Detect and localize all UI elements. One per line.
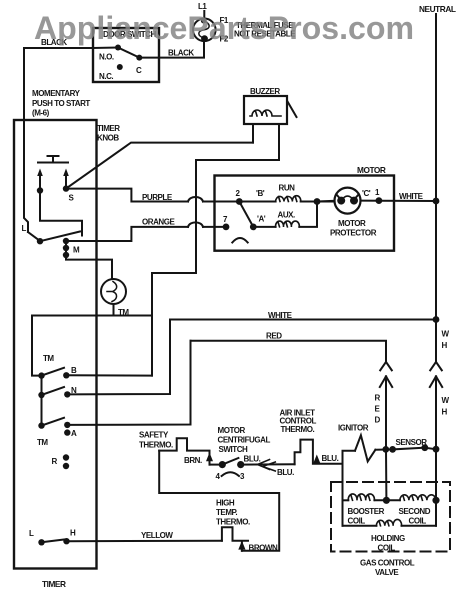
motor aux winding [276, 221, 300, 227]
wire: to centrifugal switch [210, 464, 223, 466]
junction run/aux [314, 198, 321, 205]
svg-text:BUZZER: BUZZER [250, 87, 280, 96]
svg-text:MOTOR: MOTOR [357, 165, 386, 175]
wire: run coil to junction [301, 201, 335, 203]
svg-text:N.O.: N.O. [99, 53, 114, 62]
air inlet thermostat staircase [295, 440, 343, 465]
motor A contact [250, 224, 257, 231]
svg-text:TIMER: TIMER [97, 124, 120, 133]
wire: buzzer right terminal to B riser [152, 124, 279, 376]
brn connector arrowhead [206, 453, 213, 462]
fuse terminal F2 dot [201, 35, 208, 42]
protector ticks [337, 195, 340, 199]
svg-text:COIL: COIL [348, 517, 366, 526]
svg-text:COIL: COIL [409, 517, 427, 526]
centrifugal switch contact 4 [219, 461, 226, 468]
TM winding squiggle [107, 282, 117, 302]
connector fork (white line) [430, 362, 442, 370]
svg-text:BLACK: BLACK [168, 49, 194, 58]
svg-text:IGNITOR: IGNITOR [338, 424, 369, 433]
svg-text:H: H [442, 341, 448, 350]
wire: M contact link [65, 241, 67, 255]
svg-text:R: R [52, 457, 58, 466]
svg-text:BLU.: BLU. [322, 454, 339, 463]
timer L blade [40, 232, 80, 242]
svg-text:PUSH TO START: PUSH TO START [32, 99, 90, 108]
wire: neutral vertical bus (top section) [435, 14, 437, 362]
motor terminal C [376, 197, 383, 204]
timer box [14, 120, 97, 569]
junction on neutral [433, 198, 440, 205]
centrifugal switch contact 3 [237, 461, 244, 468]
wire: TM bottom to bus [113, 304, 115, 316]
wire: junction to protector [317, 200, 335, 203]
wire: to booster coil [343, 499, 349, 501]
motor start blade 2-A [239, 202, 253, 227]
svg-text:WHITE: WHITE [399, 192, 424, 201]
svg-text:MOMENTARY: MOMENTARY [32, 89, 81, 98]
svg-text:'A': 'A' [257, 215, 266, 224]
wire: M to orange (jog) [66, 227, 188, 241]
motor box [215, 176, 395, 251]
wire: yellow from H [67, 540, 222, 543]
wire: S to purple (jog) [66, 189, 188, 202]
svg-text:TM: TM [43, 354, 54, 363]
wire: aux coil up to junction [299, 202, 317, 227]
motor terminal 7 [223, 224, 230, 231]
svg-text:MOTOR: MOTOR [338, 219, 366, 228]
wire: orange hump over harness line [188, 222, 203, 227]
motor terminal 2 [236, 198, 243, 205]
holding coil [376, 519, 401, 525]
svg-text:SECOND: SECOND [399, 507, 431, 516]
second coil [400, 495, 436, 500]
svg-text:ORANGE: ORANGE [142, 218, 176, 227]
wire: red riser to A contact [67, 341, 190, 425]
push button cap [48, 155, 59, 157]
svg-text:7: 7 [223, 215, 228, 224]
centrifugal switch blade [222, 458, 238, 465]
svg-text:CENTRIFUGAL: CENTRIFUGAL [218, 436, 271, 445]
wire: ignitor to junction [375, 448, 392, 450]
wire: purple to motor terminal 2 [203, 201, 239, 203]
connector arrow (red line) [380, 376, 392, 449]
blu connector arrowhead [313, 455, 320, 464]
wire: booster to junction [374, 499, 400, 501]
motor run winding [276, 196, 301, 202]
svg-text:AUX.: AUX. [278, 211, 296, 220]
timer R spare contacts [63, 454, 69, 460]
wire: holding coil left lead [343, 525, 377, 527]
timer H contact [63, 538, 69, 544]
wire: buzzer left terminal to knob/S line [252, 124, 254, 143]
wire: white riser to N contact [67, 320, 170, 395]
svg-text:PURPLE: PURPLE [142, 193, 173, 202]
actuation arrow left [39, 173, 41, 188]
timer B contact [63, 372, 69, 378]
door switch N.C. terminal [117, 64, 123, 70]
svg-text:SWITCH: SWITCH [219, 445, 249, 454]
svg-text:L: L [22, 224, 27, 233]
timer N contact [64, 391, 70, 397]
svg-text:YELLOW: YELLOW [141, 531, 173, 540]
svg-text:COIL: COIL [378, 544, 396, 553]
sensor element [393, 448, 425, 450]
connector arrow (white line) [430, 376, 442, 449]
wire: into N.O. terminal [93, 47, 118, 50]
svg-text:WHITE: WHITE [268, 311, 293, 320]
booster coil [348, 494, 374, 500]
push button stem [52, 156, 54, 163]
wire: brown return loop to safety thermo [159, 451, 279, 551]
svg-text:BLU.: BLU. [244, 455, 261, 464]
svg-text:AppliancePartsPros.com: AppliancePartsPros.com [34, 10, 414, 46]
wire: pivot link B-N-A [41, 376, 43, 426]
junction white/neutral [433, 316, 440, 323]
svg-text:RED: RED [266, 332, 282, 341]
buzzer coil [250, 110, 281, 116]
wire: M to timer motor TM [66, 255, 112, 279]
buzzer box [244, 96, 287, 124]
svg-text:GAS CONTROL: GAS CONTROL [360, 559, 415, 568]
wire: 2 to run coil [239, 201, 275, 203]
svg-text:2: 2 [236, 189, 241, 198]
wire: purple hump over harness line [188, 197, 203, 202]
connector fork (red line) [380, 362, 392, 370]
svg-text:BLU.: BLU. [277, 468, 294, 477]
svg-text:H: H [442, 408, 448, 417]
svg-text:M: M [73, 246, 80, 255]
fuse element [199, 21, 209, 38]
svg-text:H: H [70, 529, 76, 538]
svg-text:PROTECTOR: PROTECTOR [330, 229, 377, 238]
wire: B contact to riser [66, 374, 152, 376]
svg-text:3: 3 [240, 472, 245, 481]
fuse terminal F1 dot [201, 18, 206, 23]
svg-text:B: B [71, 366, 77, 375]
sensor left terminal [389, 446, 396, 453]
svg-text:L: L [29, 529, 34, 538]
svg-text:HOLDING: HOLDING [371, 534, 405, 543]
junction sensor/neutral [433, 446, 440, 453]
brown connector arrow [238, 541, 245, 550]
chevron connector [258, 460, 276, 472]
centrifugal 4-3 arc [222, 472, 239, 476]
svg-text:KNOB: KNOB [97, 134, 119, 143]
svg-text:C: C [136, 66, 142, 75]
svg-text:SAFETY: SAFETY [139, 431, 169, 440]
wire: button contact down-step to L fixed contact [40, 191, 82, 236]
svg-text:RUN: RUN [279, 184, 296, 193]
svg-text:N.C.: N.C. [99, 72, 113, 81]
safety thermostat bump [159, 438, 209, 464]
svg-text:NEUTRAL: NEUTRAL [419, 4, 456, 14]
wire: black from C to thermal fuse F2 [139, 41, 204, 58]
door switch SW1 box [93, 28, 159, 82]
svg-text:THERMO.: THERMO. [139, 441, 173, 450]
thermal fuse F1/F2 [193, 19, 216, 42]
timer N blade [42, 387, 65, 395]
node L1 lead [203, 11, 205, 19]
timer A pivot [38, 422, 44, 428]
wire: protector to C to neutral [361, 200, 437, 202]
svg-text:TEMP.: TEMP. [216, 508, 238, 517]
wire: white horizontal [170, 319, 436, 321]
wire: red leg to booster junction [385, 449, 387, 500]
wire: TM horizontal bus [32, 315, 152, 317]
protector contact dots [337, 197, 345, 205]
junction red/ignitor [382, 446, 389, 453]
push-to-start button bar [38, 162, 68, 164]
svg-text:'B': 'B' [256, 189, 265, 198]
svg-text:MOTOR: MOTOR [218, 426, 246, 435]
svg-text:A: A [71, 429, 77, 438]
timer S terminal [63, 185, 69, 191]
svg-text:W: W [442, 330, 450, 339]
timer A contacts [64, 422, 70, 428]
svg-text:VALVE: VALVE [375, 568, 399, 577]
junction booster/second [383, 497, 390, 504]
high temp thermostat bump [222, 527, 248, 541]
svg-text:E: E [375, 405, 381, 414]
door switch N.O. terminal [115, 45, 121, 51]
wire: neutral leg to second coil [435, 449, 437, 526]
svg-text:1: 1 [375, 188, 380, 197]
actuation arrow right [65, 173, 67, 186]
timer L (bottom) pivot [38, 539, 44, 545]
timer knob linkage line to S [66, 143, 253, 189]
svg-text:'C': 'C' [362, 189, 371, 198]
wire: jog into timer L pivot [28, 232, 40, 241]
door switch C terminal [136, 55, 142, 61]
svg-text:D: D [375, 416, 381, 425]
ignitor resistance zigzag [355, 435, 375, 461]
motor protector U2 [335, 188, 361, 214]
svg-text:TIMER: TIMER [42, 579, 66, 589]
svg-text:(M-6): (M-6) [32, 109, 50, 118]
timer B pivot [38, 372, 44, 378]
wire: bus down to B pivot [32, 316, 42, 376]
wire: red horizontal [191, 341, 387, 362]
timer motor TM [101, 279, 126, 304]
wire: holding coil right lead [402, 525, 437, 527]
svg-text:THERMO.: THERMO. [281, 425, 315, 434]
timer N pivot [38, 392, 44, 398]
svg-text:BRN.: BRN. [184, 456, 202, 465]
svg-text:THERMO.: THERMO. [216, 518, 250, 527]
junction second/neutral [432, 497, 439, 504]
door switch blade N.O. to C [118, 48, 139, 58]
wire: blue from contact 3 [241, 463, 295, 465]
timer A blade [42, 418, 65, 426]
svg-text:W: W [442, 396, 450, 405]
sensor right terminal [421, 444, 428, 451]
timer B blade [42, 368, 65, 376]
wire: black from door switch N.O. left to timer L [24, 48, 93, 232]
timer H blade [42, 540, 65, 543]
svg-text:S: S [69, 194, 75, 203]
push button contact (left) [37, 187, 43, 193]
svg-text:BOOSTER: BOOSTER [348, 507, 385, 516]
svg-text:HIGH: HIGH [216, 499, 235, 508]
buzzer striker blade [288, 102, 297, 118]
wire: ignitor left leg [343, 451, 356, 526]
wire: orange to motor terminal 7 [203, 226, 226, 228]
protector bimetal arc [341, 196, 354, 201]
centrifugal actuator arc [232, 238, 247, 243]
svg-text:4: 4 [216, 472, 221, 481]
svg-text:R: R [375, 394, 381, 403]
svg-text:TM: TM [37, 438, 48, 447]
wire: sensor to neutral [425, 448, 436, 450]
wire: A to aux coil [253, 226, 275, 228]
timer M contacts [63, 238, 69, 244]
gas control valve dashed box [331, 482, 450, 552]
timer L pivot [37, 238, 43, 244]
